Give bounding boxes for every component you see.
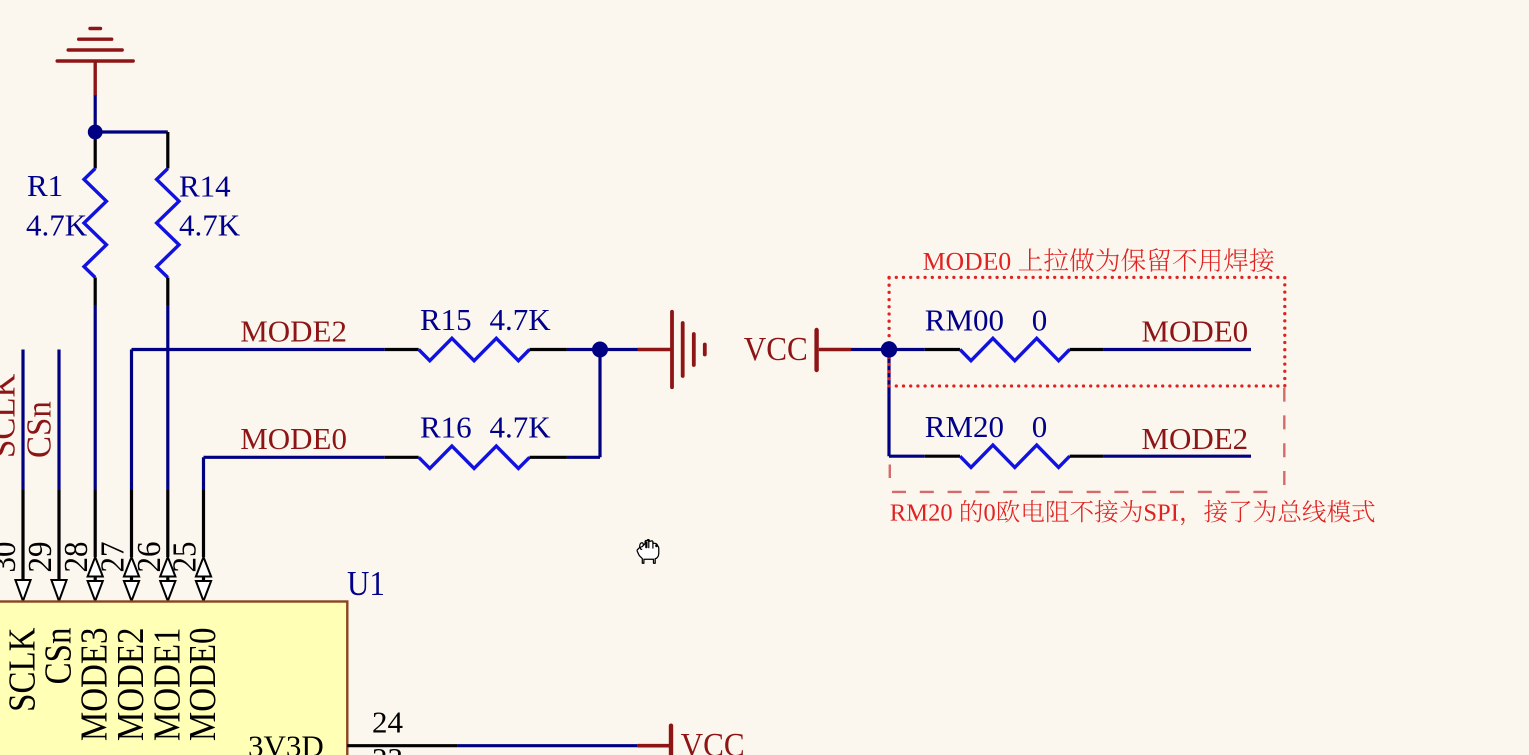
pin 30 lead (21, 490, 24, 580)
power port VCC (bottom) (637, 744, 669, 748)
annotation text: RM20 0-ohm note (CJK) (891, 500, 1375, 525)
svg-text:MODE0: MODE0 (181, 628, 224, 742)
pin 25 arrow(s) (196, 557, 211, 577)
wire: RM20 to MODE2 (1103, 455, 1251, 458)
svg-text:CSn: CSn (21, 401, 59, 458)
wire: MODE0 horizontal (pin 25 to R16) (204, 456, 385, 459)
svg-text:R15: R15 (420, 302, 472, 337)
wire: MODE2 horizontal (pin 27 to R15) (132, 348, 385, 351)
svg-text:4.7K: 4.7K (490, 302, 552, 337)
wire: pin 25 vertical (MODE0) (202, 457, 205, 490)
pin 28 lead (94, 490, 97, 557)
wire: pin 27 vertical (MODE2) (130, 350, 133, 491)
svg-text:27: 27 (94, 542, 132, 573)
svg-text:28: 28 (58, 542, 96, 573)
svg-text:4.7K: 4.7K (26, 208, 88, 243)
svg-text:U1: U1 (347, 565, 385, 603)
pin 30 arrow(s) (15, 580, 30, 601)
svg-text:30: 30 (0, 542, 23, 573)
svg-text:MODE0: MODE0 (1141, 314, 1248, 349)
wire: junction to RM00 (889, 348, 925, 351)
svg-text:RM00: RM00 (925, 303, 1004, 338)
IC body U1 (0, 602, 347, 755)
wire: pin 28 vertical (MODE3) (94, 305, 97, 490)
wire: corner to RM20 (889, 455, 925, 458)
wire: pin 30 vertical (SCLK) (21, 350, 24, 491)
svg-text:VCC: VCC (681, 726, 745, 755)
svg-text:26: 26 (130, 542, 168, 573)
wire: junction to ground stem (600, 348, 638, 351)
power port VCC bar (814, 330, 818, 370)
svg-text:RM20: RM20 (925, 409, 1004, 444)
wire: R15 to junction (567, 348, 600, 351)
resistor RM00 0 (horizontal) (925, 338, 1104, 360)
pin 24 lead (3V3D) (347, 744, 457, 747)
pin 26 arrow(s) (160, 557, 175, 577)
resistor R1 4.7K (vertical) (84, 132, 106, 305)
svg-text:4.7K: 4.7K (490, 410, 552, 445)
resistor R16 4.7K (horizontal) (385, 446, 567, 468)
ground GND (earth bars, top-left) (57, 29, 133, 96)
svg-text:MODE0: MODE0 (240, 421, 347, 456)
pin 27 lead (130, 490, 133, 557)
junction node (RM00/RM20 tie) (881, 341, 897, 357)
svg-text:24: 24 (372, 705, 404, 740)
svg-text:29: 29 (22, 542, 60, 573)
svg-text:3V3D: 3V3D (248, 729, 324, 755)
svg-text:25: 25 (166, 542, 204, 573)
svg-text:MODE2: MODE2 (240, 314, 347, 349)
wire: junction to R14 top corner (95, 130, 168, 133)
pin 29 arrow(s) (51, 580, 66, 601)
resistor RM20 0 (horizontal) (925, 445, 1104, 467)
svg-text:0: 0 (1032, 303, 1048, 338)
svg-text:VCC: VCC (744, 331, 808, 369)
pin 25 lead (202, 490, 205, 557)
wire: VCC to junction (851, 348, 889, 351)
svg-text:SCLK: SCLK (0, 373, 23, 458)
pin 26 lead (166, 490, 169, 557)
svg-text:23: 23 (372, 741, 403, 755)
hand cursor (637, 539, 659, 563)
pin 27 arrow(s) (124, 557, 139, 577)
annotation box (dotted, RM00 reserved) (889, 277, 1285, 386)
resistor R15 4.7K (horizontal) (385, 338, 567, 360)
wire: junction down to R16 (598, 350, 601, 458)
pin 29 lead (57, 490, 60, 580)
junction node (R1/R14 tie) (88, 125, 103, 140)
svg-text:R16: R16 (420, 410, 472, 445)
ground GND (bar style, right of R15) (638, 312, 705, 387)
annotation text: MODE0 pull-up note (CJK) (923, 248, 1273, 272)
wire: pin 29 vertical (CSn) (57, 350, 60, 491)
svg-text:R14: R14 (179, 169, 231, 204)
wire: pin 24 to VCC (458, 744, 638, 747)
resistor R14 4.7K (vertical) (157, 132, 179, 305)
svg-text:MODE2: MODE2 (1141, 421, 1248, 456)
wire: pin 26 vertical (MODE1) (166, 305, 169, 490)
wire: junction down to RM20 row (887, 350, 890, 457)
svg-text:4.7K: 4.7K (179, 208, 241, 243)
annotation box (dashed, RM20) (890, 388, 1285, 492)
pin 28 arrow(s) (88, 557, 103, 577)
junction node (R15/R16 tie) (592, 342, 608, 358)
svg-text:0: 0 (1032, 409, 1048, 444)
wire: RM00 to MODE0 (1103, 348, 1251, 351)
svg-text:R1: R1 (27, 168, 63, 203)
wire: ground stem down to junction (94, 95, 97, 132)
